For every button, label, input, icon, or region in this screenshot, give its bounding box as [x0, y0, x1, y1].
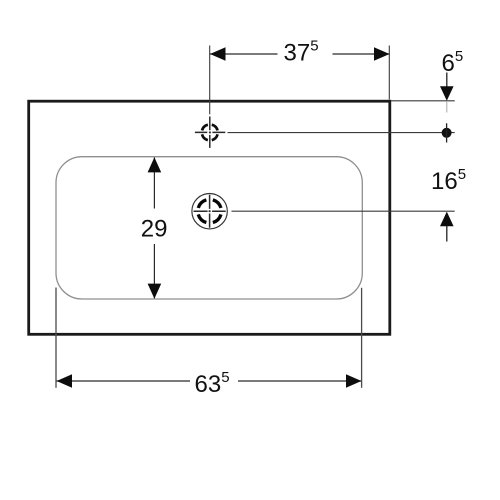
drain centreline vertical: [209, 195, 211, 228]
dimension 63.5 extension line right: [361, 288, 363, 388]
dimension 29 line: [153, 158, 155, 299]
dimension 63.5 line: [57, 380, 362, 382]
dimension 37.5 extension line left: [209, 46, 211, 115]
svg-text:375: 375: [284, 38, 319, 67]
dimension 29 arrow down: [148, 284, 162, 299]
dimension 6.5 arrow: [440, 86, 454, 101]
tap hole reference line: [228, 132, 455, 134]
dimension 37.5 arrow right: [374, 47, 390, 61]
dimension 37.5 extension line right: [388, 46, 390, 100]
dimension 6.5 extension line: [391, 100, 455, 102]
dimension 16.5 line: [232, 210, 455, 212]
tap hole symbol: [202, 125, 218, 141]
dimension 6.5 arrow tick below: [446, 102, 448, 113]
dimension 29 arrow up: [148, 157, 162, 172]
dimension 29 label: [141, 216, 168, 243]
svg-text:29: 29: [141, 216, 168, 243]
svg-text:65: 65: [442, 48, 464, 77]
dimension 16.5 arrow: [440, 212, 454, 227]
tap hole reference dot: [442, 123, 452, 142]
dimension 63.5 label: [195, 369, 230, 398]
dimension 16.5 label: [431, 166, 466, 195]
tap hole centreline horizontal: [195, 131, 225, 133]
drain centreline horizontal: [194, 210, 226, 212]
tap hole centreline vertical: [209, 117, 211, 148]
dimension 6.5 arrow stem: [446, 73, 448, 87]
dimension 16.5 arrow stem: [446, 226, 448, 242]
dimension 63.5 arrow left: [57, 374, 72, 388]
drain inner arcs: [198, 200, 221, 223]
basin inner bowl: [56, 157, 362, 299]
dimension 6.5 label: [442, 48, 464, 77]
drain outer circle: [192, 194, 227, 229]
dimension 63.5 extension line left: [55, 288, 57, 388]
svg-text:635: 635: [195, 369, 230, 398]
dimension 37.5 label: [284, 38, 319, 67]
dimension 37.5 arrow left: [210, 47, 226, 61]
dimension 63.5 arrow right: [346, 374, 361, 388]
washbasin outer rim: [29, 101, 390, 334]
svg-text:165: 165: [431, 166, 466, 195]
dimension 37.5 line: [210, 53, 390, 55]
